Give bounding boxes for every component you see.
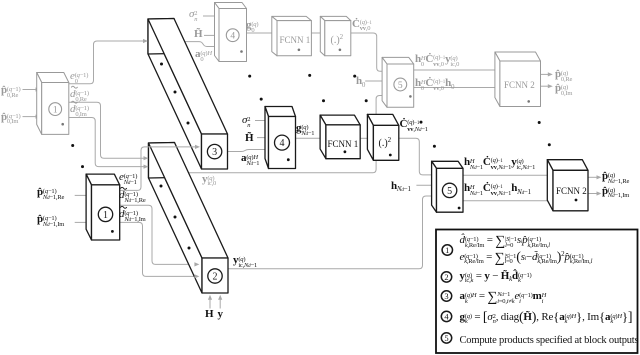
label e0 <box>70 71 88 84</box>
label d0Re <box>70 89 89 102</box>
label y input <box>218 309 223 320</box>
label square black <box>379 138 392 150</box>
wire yicN1 prismB to block5 <box>228 196 436 269</box>
wire p0Im input <box>23 116 39 118</box>
label square gray <box>331 35 344 47</box>
svg-text:1: 1 <box>445 245 449 255</box>
square-law gray box <box>320 16 351 55</box>
wire CvvN1 sq to block5 <box>399 138 436 175</box>
label circled-3 on black block3 <box>207 144 221 158</box>
label CvvN1 <box>400 119 428 133</box>
arrow pN1Re output <box>597 175 602 179</box>
wire FCNN1 to sq <box>360 137 375 139</box>
arrow y up <box>218 295 222 300</box>
wire FCNN2 out2 <box>588 193 598 195</box>
label g0 <box>246 20 258 33</box>
label pN1Im output <box>602 186 629 200</box>
wire eN1 block1 to prismA front <box>120 147 197 191</box>
svg-text:4: 4 <box>280 138 285 149</box>
block4 black (gain assembly, subcarrier Nd-1) <box>265 107 296 169</box>
wire dN1Im block1 to prismB front <box>120 222 196 276</box>
label hN1HCvvN1yicN1 <box>464 157 535 171</box>
arrow pN1Im <box>86 220 91 224</box>
wire sigma tick black <box>255 120 267 122</box>
block1 black (soft symbol stats, subcarrier Nd-1) <box>86 174 120 240</box>
label yic0 <box>202 174 216 187</box>
legend eq5 <box>460 335 639 346</box>
arrow eN1 into block3 <box>195 145 200 149</box>
label circled-1 on gray block1 <box>49 103 62 116</box>
wire d0Re from block1g to prismB top <box>69 102 145 158</box>
label p0Im output <box>555 83 572 96</box>
svg-text:5: 5 <box>444 333 448 343</box>
label circled-4 on gray block4 <box>226 29 239 42</box>
label pN1Im input <box>37 214 64 228</box>
wire FCNN2g out2 <box>541 85 550 87</box>
ellipsis dots between layer 0 and layer Nd-1 copies <box>71 144 74 147</box>
wire a0 from prismA to block4g <box>185 42 217 47</box>
arrow d0Re into prismB <box>144 156 149 160</box>
wire Htilde tick black <box>257 137 267 139</box>
FCNN 2 gray box <box>495 52 541 107</box>
label p0Im input <box>1 112 20 125</box>
tilde accents for d-tilde labels <box>71 86 126 208</box>
label sigma-n2 gray <box>189 9 197 22</box>
wire gN1 block4 to FCNN1 <box>296 137 328 139</box>
label circled-4 on black block4 <box>275 135 290 150</box>
wire FCNN1g to sq-g <box>311 32 326 34</box>
svg-text:2: 2 <box>213 272 218 283</box>
block4 gray (gain assembly, subcarrier 0) <box>215 3 247 62</box>
legend eq3 <box>460 291 547 304</box>
wire aN1 prismA to block4 <box>228 150 267 152</box>
wire Htilde tick gray <box>204 34 217 36</box>
wire p0Re input <box>23 89 39 91</box>
legend box <box>436 230 638 354</box>
label FCNN2 gray <box>504 80 535 91</box>
legend circled-1 <box>442 245 452 255</box>
arrow d0Im into prismB <box>144 165 149 169</box>
wire dN1Re block1 to prismB front <box>120 205 196 264</box>
svg-text:3: 3 <box>444 291 448 301</box>
FCNN 2 black box <box>547 160 588 211</box>
wire FCNN2g out1 <box>541 73 550 75</box>
arrow p0Im <box>36 115 41 119</box>
wire block5g out2 <box>414 87 497 89</box>
label H input <box>205 309 213 320</box>
label dN1Re <box>119 190 146 204</box>
label circled-5 on gray block5 <box>394 78 407 91</box>
legend circled-3 <box>441 291 451 301</box>
arrow dN1Re into block2 <box>194 262 199 266</box>
label yicN1 <box>233 255 257 269</box>
wire d0Im from block1g to prismB top <box>69 118 145 167</box>
label pN1Re output <box>602 171 629 185</box>
label d0Im <box>70 104 89 117</box>
svg-text:1: 1 <box>103 210 108 221</box>
label p0Re output <box>555 69 572 82</box>
svg-text:5: 5 <box>447 186 452 197</box>
label circled-2 on black block2 <box>208 269 222 283</box>
label pN1Re input <box>37 187 64 201</box>
wire yic0 prismB to block5g <box>176 96 384 173</box>
svg-text:4: 4 <box>230 32 235 42</box>
label gN1 <box>296 123 314 137</box>
arrow pN1Im output <box>597 191 602 195</box>
wire block5 out1 <box>463 174 550 176</box>
label FCNN1 gray <box>280 35 311 46</box>
block1 gray (soft symbol stats, subcarrier 0) <box>37 73 69 135</box>
wire h0 tick <box>365 80 384 82</box>
arrow e0 into prismA <box>143 39 148 43</box>
wire pN1Re input <box>75 194 89 196</box>
arrow H up <box>208 295 212 300</box>
label circled-1 on black block1 <box>98 207 112 221</box>
label h0 <box>356 76 365 88</box>
wire pN1Im input <box>75 221 89 223</box>
svg-text:3: 3 <box>212 147 217 158</box>
wire H input up <box>209 298 211 309</box>
wire e0 from block1g to prismA top <box>69 41 144 84</box>
wire block5g out1 <box>414 69 497 71</box>
FCNN 1 gray box <box>272 16 312 55</box>
label hN1HCvvN1hN1 <box>464 183 531 197</box>
label hN1 <box>391 181 411 194</box>
label dN1Im <box>119 209 146 223</box>
label sigma-n2 black <box>242 115 250 128</box>
legend circled-2 <box>441 272 451 282</box>
wire g0 block4g to FCNN1g <box>247 32 279 34</box>
label a0 <box>195 49 212 62</box>
wire hN1 tick <box>416 184 436 186</box>
svg-text:5: 5 <box>398 81 403 91</box>
svg-text:2: 2 <box>444 272 448 282</box>
legend eq1b <box>460 252 593 265</box>
block5 black (product node, subcarrier Nd-1) <box>432 161 463 212</box>
arrow p0Im output <box>548 84 553 88</box>
legend eq1a <box>460 235 550 248</box>
label Htilde black <box>245 133 253 144</box>
prism stack block3 (interference weights), long 3D bar <box>148 19 228 170</box>
label circled-5 on black block5 <box>442 183 456 197</box>
label h0HCvv0h0 <box>415 78 454 91</box>
wire FCNN2 out1 <box>588 176 598 178</box>
arrow dN1Im into block2 <box>194 274 199 278</box>
wire Cvv0 sq-g to block5g <box>351 33 384 71</box>
legend circled-5 <box>441 333 451 343</box>
arrow pN1Re <box>86 193 91 197</box>
label FCNN2 black <box>556 186 587 197</box>
legend eq4 <box>460 312 633 325</box>
label eN1 <box>119 172 137 186</box>
small dots inside box faces <box>61 123 64 126</box>
label p0Re input <box>1 85 20 98</box>
arrow p0Re <box>36 87 41 91</box>
square-law black box <box>367 114 398 160</box>
arrow p0Re output <box>548 72 553 76</box>
block5 gray (product node, subcarrier 0) <box>382 57 414 107</box>
wire sigma tick gray <box>203 15 217 17</box>
FCNN 1 black box <box>320 115 360 159</box>
prism stack block2 (interference cancellation), long 3D bar <box>149 143 229 294</box>
wire y input up <box>219 298 221 309</box>
label Htilde gray <box>194 29 202 40</box>
label FCNN1 black <box>328 139 359 150</box>
label h0HCvv0yic0 <box>415 54 459 67</box>
legend circled-4 <box>441 311 451 321</box>
label aN1 <box>241 153 259 167</box>
label Cvv0 <box>352 19 372 32</box>
wire block5 out2 <box>463 200 550 202</box>
svg-text:1: 1 <box>53 106 58 116</box>
legend eq2 <box>460 271 532 284</box>
